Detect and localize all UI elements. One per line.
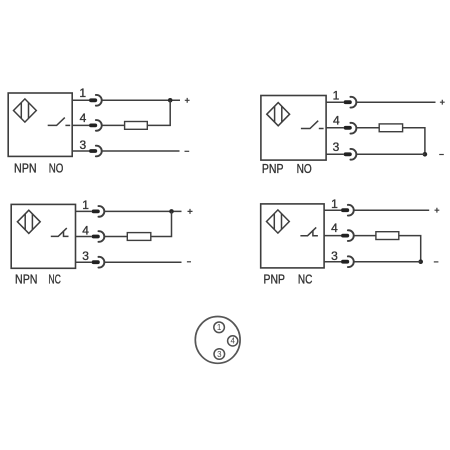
proximity sensor symbol (diamond) U1 bbox=[14, 99, 37, 122]
svg-text:1: 1 bbox=[333, 88, 340, 102]
connector plug pin1 U3 bbox=[92, 206, 105, 217]
pin 3 circle J1 bbox=[214, 349, 225, 360]
wire pin3 lead U3 bbox=[76, 261, 92, 263]
junction dot U3 bbox=[169, 209, 174, 214]
svg-text:PNP: PNP bbox=[262, 161, 284, 176]
wire pin3 to minus U1 bbox=[102, 150, 180, 152]
NC switch contact U3 bbox=[51, 228, 69, 236]
minus terminal U1 bbox=[185, 150, 190, 152]
svg-text:3: 3 bbox=[80, 138, 87, 152]
NO switch contact U2 bbox=[301, 121, 324, 129]
sensor box U1 NPN NO bbox=[8, 93, 72, 156]
proximity sensor symbol (diamond) U2 bbox=[267, 103, 290, 126]
svg-text:1: 1 bbox=[331, 197, 338, 211]
svg-text:4: 4 bbox=[82, 223, 89, 237]
plus terminal U1 bbox=[185, 98, 190, 103]
NO switch contact U1 bbox=[48, 118, 70, 126]
wire pin3 lead U4 bbox=[324, 261, 341, 263]
svg-text:3: 3 bbox=[333, 140, 340, 154]
plus terminal U2 bbox=[440, 100, 445, 105]
wire pin1 lead U3 bbox=[76, 210, 92, 212]
svg-text:NC: NC bbox=[48, 272, 61, 287]
connector plug pin3 U1 bbox=[89, 146, 102, 157]
proximity sensor symbol (diamond) U4 bbox=[267, 210, 290, 233]
connector plug pin3 U4 bbox=[341, 256, 354, 267]
junction dot U1 bbox=[168, 98, 173, 103]
wire pin1 to plus U1 bbox=[102, 99, 180, 101]
proximity sensor symbol (diamond) U3 bbox=[17, 210, 40, 233]
connector plug pin3 U3 bbox=[92, 257, 105, 268]
wire pin4 lead U1 bbox=[72, 124, 89, 126]
wire pin4 to load U4 bbox=[354, 235, 376, 237]
wire pin4 to load U1 bbox=[102, 124, 125, 126]
svg-text:NC: NC bbox=[298, 271, 313, 286]
connector plug pin4 U4 bbox=[341, 230, 354, 241]
wire pin1 to plus U2 bbox=[356, 101, 435, 103]
wire load to junction U1 bbox=[147, 100, 170, 125]
svg-text:NO: NO bbox=[49, 161, 64, 176]
sensor box U4 PNP NC bbox=[261, 204, 324, 268]
wire pin3 lead U1 bbox=[72, 150, 89, 152]
wire pin4 lead U2 bbox=[326, 127, 344, 129]
svg-text:1: 1 bbox=[217, 323, 222, 332]
svg-text:PNP: PNP bbox=[264, 271, 285, 286]
wire load to junction U3 bbox=[151, 211, 172, 236]
load resistor RL U1 bbox=[125, 122, 148, 130]
svg-text:4: 4 bbox=[80, 111, 87, 125]
wire pin3 to junction U2 bbox=[356, 153, 425, 155]
wire load to junction U2 bbox=[403, 128, 425, 155]
plus terminal U4 bbox=[435, 208, 440, 213]
svg-text:NPN: NPN bbox=[14, 161, 37, 176]
minus terminal U2 bbox=[439, 154, 444, 156]
svg-text:1: 1 bbox=[79, 86, 86, 100]
wire pin4 lead U3 bbox=[76, 236, 92, 238]
svg-text:4: 4 bbox=[230, 337, 235, 346]
junction dot U4 bbox=[418, 259, 423, 264]
wire pin1 lead U2 bbox=[326, 101, 344, 103]
svg-text:3: 3 bbox=[82, 249, 89, 263]
connector plug pin1 U4 bbox=[341, 205, 354, 216]
svg-text:NO: NO bbox=[297, 161, 312, 176]
connector face circle J1 bbox=[195, 317, 240, 364]
minus terminal U4 bbox=[434, 261, 439, 263]
junction dot U2 bbox=[423, 152, 428, 157]
wire pin4 lead U4 bbox=[324, 235, 341, 237]
sensor box U3 NPN NC bbox=[11, 204, 75, 268]
load resistor RL U2 bbox=[379, 124, 402, 132]
wire pin1 to plus U4 bbox=[354, 209, 430, 211]
wire pin4 to load U3 bbox=[104, 236, 127, 238]
minus terminal U3 bbox=[187, 261, 191, 263]
connector plug pin3 U2 bbox=[344, 149, 357, 160]
plus terminal U3 bbox=[188, 209, 193, 214]
connector plug pin4 U3 bbox=[92, 231, 105, 242]
svg-text:1: 1 bbox=[82, 198, 89, 212]
connector plug pin4 U1 bbox=[89, 120, 102, 131]
wire pin1 lead U4 bbox=[324, 209, 341, 211]
sensor box U2 PNP NO bbox=[261, 96, 326, 161]
wire pin3 to minus U3 bbox=[104, 261, 181, 263]
wire pin3 lead U2 bbox=[326, 153, 344, 155]
connector plug pin1 U2 bbox=[344, 97, 357, 108]
load resistor RL U4 bbox=[376, 232, 399, 240]
connector plug pin1 U1 bbox=[89, 95, 102, 106]
svg-text:4: 4 bbox=[331, 221, 338, 235]
NC switch contact U4 bbox=[300, 227, 318, 235]
wire pin1 to plus U3 bbox=[104, 210, 181, 212]
svg-text:NPN: NPN bbox=[15, 272, 38, 287]
svg-text:3: 3 bbox=[217, 350, 222, 359]
connector plug pin4 U2 bbox=[344, 123, 357, 134]
wire pin4 to load U2 bbox=[356, 127, 379, 129]
wire load to junction U4 bbox=[399, 236, 421, 262]
pin 1 circle J1 bbox=[214, 322, 225, 333]
load resistor RL U3 bbox=[127, 233, 151, 241]
svg-text:4: 4 bbox=[333, 114, 340, 128]
svg-text:3: 3 bbox=[331, 249, 338, 263]
wire pin3 to junction U4 bbox=[354, 261, 421, 263]
pin 4 circle J1 bbox=[228, 336, 238, 346]
wire pin1 lead U1 bbox=[72, 99, 89, 101]
